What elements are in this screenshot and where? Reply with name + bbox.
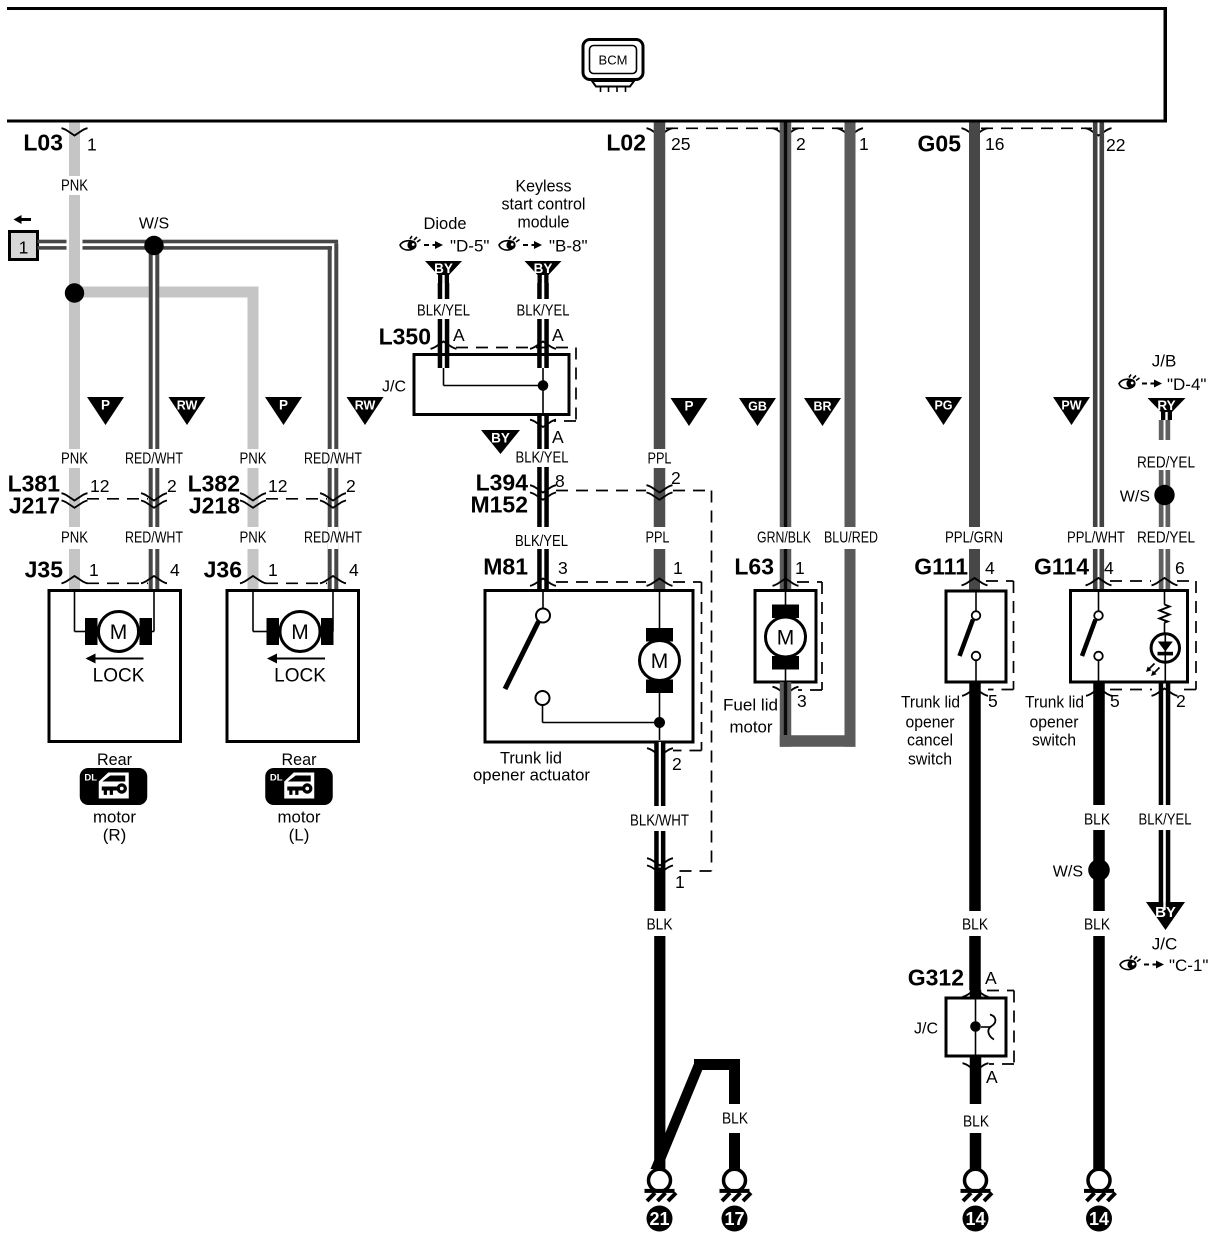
connector L381 chevrons on PNK [62,493,88,508]
connector L394/M152 dashed outline [556,491,712,872]
wire BLK/YEL keyless [537,283,549,368]
svg-text:GRN/BLK: GRN/BLK [757,530,811,547]
destination triangle RW (RED/WHT #1) [169,397,206,425]
label PNK [240,530,267,547]
svg-text:PG: PG [934,399,952,413]
svg-text:L350: L350 [379,324,431,350]
svg-text:P: P [101,398,110,413]
connector L02 labels [606,130,868,156]
svg-text:BLK: BLK [962,917,988,934]
connector L63 dashed outline [797,582,822,690]
svg-text:BCM: BCM [599,53,628,68]
svg-text:PNK: PNK [61,451,88,468]
svg-text:RW: RW [177,399,198,413]
label Trunk lid opener cancel switch [901,692,960,768]
label BLK/YEL [516,450,569,467]
connector G111 labels [914,554,995,580]
connector G312 labels [908,965,997,991]
svg-text:DL: DL [270,773,283,784]
connector G111 dashed outline [986,581,1014,690]
wire GRN/BLK from L02-2 [780,123,792,591]
wire BLK branch to ground 17 [651,1059,741,1170]
G312 internal line [975,999,977,1055]
svg-text:(R): (R) [103,825,127,844]
label Rear (R) [97,750,132,769]
svg-text:25: 25 [671,134,690,154]
label PPL/GRN [945,530,1003,547]
trunk lid opener cancel switch G111 box [946,591,1006,682]
connector J36 labels [204,557,359,583]
G114 LED [1146,634,1180,681]
label 2 below M81 [672,754,682,774]
destination triangle RW (RED/WHT #2) [347,397,384,425]
svg-text:5: 5 [988,691,998,711]
svg-text:BLK/YEL: BLK/YEL [516,450,569,467]
eye reference to B-8 [499,236,588,256]
svg-text:22: 22 [1106,135,1125,155]
svg-text:Trunk lid: Trunk lid [901,692,960,711]
svg-text:L02: L02 [606,130,646,156]
svg-text:opener: opener [1030,712,1079,731]
connector L63 labels [734,554,804,580]
svg-text:1: 1 [675,872,685,892]
svg-text:5: 5 [1110,691,1120,711]
svg-text:BLK/YEL: BLK/YEL [1139,812,1192,829]
svg-text:1: 1 [19,238,29,258]
svg-text:A: A [985,968,997,988]
svg-text:(L): (L) [289,825,310,844]
svg-text:J/C: J/C [382,379,406,396]
label BLU/RED [824,530,878,547]
svg-text:1: 1 [673,558,683,578]
wire PNK vertical #2 [248,287,259,591]
svg-text:BR: BR [813,400,831,414]
svg-text:W/S: W/S [1053,863,1083,880]
svg-text:cancel: cancel [907,730,953,749]
wire BLK below G111 [969,682,981,990]
connector chevron M81-2 [647,748,673,755]
wire RED/YEL [1159,420,1170,591]
svg-text:12: 12 [90,476,109,496]
connector chevron L63-3 [773,687,799,694]
wire RED/WHT horizontal from box 1 [38,240,339,250]
svg-text:BLK: BLK [722,1111,748,1128]
svg-text:start control: start control [502,195,586,214]
connector L382 chevrons on RED/WHT [320,493,346,508]
wire BLU/RED from L02-1 [845,123,856,747]
svg-text:14: 14 [965,1209,985,1229]
label BLK [1084,812,1110,829]
svg-text:W/S: W/S [1120,488,1150,505]
connector chevrons BLK/WHT to BLK [647,858,673,873]
connector L382/J218 dashed line [266,498,327,500]
label RED/YEL [1137,455,1195,472]
svg-text:G114: G114 [1034,554,1089,580]
svg-text:BY: BY [1155,904,1176,921]
wire PPL/GRN from G05-16 [969,123,980,592]
M81 switch [505,592,660,723]
G312 wire stub [970,990,982,998]
svg-text:PW: PW [1061,399,1081,413]
svg-text:LOCK: LOCK [274,666,326,687]
ground symbol 17 [720,1169,752,1201]
label A below L350 [552,427,564,447]
connector J35 labels [25,557,180,583]
svg-text:"C-1": "C-1" [1169,956,1208,975]
svg-text:"D-4": "D-4" [1167,375,1206,394]
wire BLK to ground 14 (G312) [970,1056,982,1170]
power source box 1 [10,215,38,260]
svg-text:RED/YEL: RED/YEL [1137,455,1195,472]
svg-text:"D-5": "D-5" [450,237,489,256]
label Trunk lid opener switch [1025,692,1084,749]
connector G05 labels [918,131,1126,157]
svg-text:J/B: J/B [1152,351,1177,370]
funnel BY (diode feed) [425,261,462,283]
svg-text:LOCK: LOCK [93,666,145,687]
label 5 below G111 [988,691,998,711]
svg-text:M: M [777,627,795,650]
connector G114 dashed outline [1110,581,1196,690]
svg-text:RED/WHT: RED/WHT [125,451,183,468]
svg-text:BLK/YEL: BLK/YEL [517,303,570,320]
connector chevron L03-1 [62,128,88,135]
svg-text:Rear: Rear [97,750,132,769]
connector M81 chevrons top [530,579,673,586]
connector L03 pin 1 label [23,130,96,156]
eye reference to D-5 [400,236,489,256]
ground number 14 (G312) [963,1206,989,1232]
svg-text:RY: RY [1157,398,1175,413]
connector G114 labels [1034,554,1185,580]
svg-text:PNK: PNK [240,530,267,547]
label A below G312 [986,1067,998,1087]
destination triangle P (PNK #2) [265,397,302,425]
junction dot on PNK [65,283,84,302]
G312 pigtail hook [981,1015,995,1040]
trunk lid opener switch G114 box [1071,591,1188,683]
svg-text:4: 4 [1104,558,1114,578]
svg-text:A: A [552,325,564,345]
label PPL [648,451,672,468]
ground symbol 21 [645,1169,677,1201]
svg-text:14: 14 [1089,1209,1109,1229]
svg-text:Keyless: Keyless [516,177,572,196]
svg-text:8: 8 [555,471,565,491]
svg-text:opener actuator: opener actuator [473,765,590,784]
M81 motor M [640,592,680,740]
G114 resistor [1160,592,1170,634]
splice W/S on RED/YEL [1120,485,1175,506]
label Diode [424,214,467,233]
connector L381/J217 labels [8,471,177,519]
svg-text:21: 21 [649,1209,669,1229]
L63 motor M [766,592,806,681]
svg-text:1: 1 [87,135,97,155]
svg-text:BY: BY [491,431,510,446]
svg-text:DL: DL [84,773,97,784]
label BLK [647,917,673,934]
splice W/S on BLK [1053,859,1110,881]
destination triangle P (PPL) [671,398,708,426]
connector chevron G312-A bottom [963,1063,989,1070]
funnel RY [1148,398,1186,420]
label RED/WHT [304,530,362,547]
svg-text:BLK/YEL: BLK/YEL [515,533,568,550]
funnel BY (to BY below L350) [481,430,520,454]
svg-text:M81: M81 [483,554,528,580]
label PPL/WHT [1067,530,1125,547]
BCM icon [583,40,643,93]
svg-text:1: 1 [859,134,869,154]
svg-text:BY: BY [534,261,553,276]
connector L381/J217 dashed line [87,498,148,500]
G111 switch [960,593,981,681]
connector J35 chevrons [62,576,168,583]
svg-text:2: 2 [1176,691,1186,711]
svg-text:3: 3 [797,691,807,711]
wire RED/WHT vertical #1 [149,245,160,591]
destination triangle BR [804,398,841,426]
wire BLK/YEL stub into J/C [438,355,549,369]
svg-text:1: 1 [795,558,805,578]
eye reference to D-4 [1119,375,1206,395]
wire BLK/YEL diode [438,283,450,368]
connector L02 dashed line [666,127,843,129]
svg-text:P: P [684,399,693,414]
svg-text:RED/WHT: RED/WHT [304,451,362,468]
svg-text:J/C: J/C [914,1021,938,1038]
G312 internal junction dot [970,1021,981,1032]
label PPL [646,530,670,547]
label PNK [61,451,88,468]
ground symbol 14 (G312) [961,1169,993,1201]
label RED/WHT [125,530,183,547]
svg-text:J217: J217 [9,493,60,519]
connector L350 dashed outline [456,348,576,422]
svg-text:6: 6 [1175,558,1185,578]
label 5 below G114 [1110,691,1120,711]
svg-text:motor: motor [730,717,773,736]
connector L382 chevrons on PNK [240,493,266,508]
destination triangle GB [739,398,776,426]
J/C internal junction dot [538,380,549,391]
svg-text:BLK/WHT: BLK/WHT [630,813,689,830]
connector G05 dashed line [981,127,1092,129]
svg-text:Rear: Rear [282,750,317,769]
wire PPL from L02-25 [654,123,666,591]
connector M81 labels [483,554,682,580]
ground number 21 [647,1206,673,1232]
svg-text:M: M [651,650,669,673]
M81 junction dot [654,717,665,728]
svg-text:PNK: PNK [240,451,267,468]
junction block J/C (L350) [382,355,569,415]
connector G114 chevrons top [1086,578,1178,585]
svg-text:module: module [518,213,570,232]
svg-text:RED/WHT: RED/WHT [125,530,183,547]
destination triangle P (PNK #1) [87,397,124,425]
wire BLK to ground 21 [654,876,665,1171]
wire BLK/YEL below G114 [1159,682,1171,902]
svg-text:Fuel lid: Fuel lid [723,695,778,714]
label Keyless start control module [502,177,586,232]
label J/C [1152,934,1178,953]
label PNK [61,178,88,195]
connector L63 chevron top [773,579,799,586]
wire GRN/BLK below L63 (U-turn to BLU/RED) [780,682,856,747]
svg-text:M: M [110,621,128,644]
rear door lock motor (L) box [227,591,359,742]
svg-text:12: 12 [268,476,287,496]
label BLK/YEL [515,533,568,550]
connector G111 chevron top [962,578,988,585]
svg-text:2: 2 [346,476,356,496]
label PNK [61,530,88,547]
label BLK/YEL [517,303,570,320]
svg-text:motor: motor [93,807,136,826]
connector chevron L350-A bottom [530,420,556,427]
ground symbol 14 (G114) [1084,1169,1116,1201]
door-lock DL icon (R) [80,768,148,805]
wire PNK branch horizontal [79,287,259,298]
wire PNK vertical from L03-1 [69,123,80,591]
svg-text:4: 4 [349,560,359,580]
label BLK/WHT [630,813,689,830]
label BLK [722,1111,748,1128]
splice W/S junction dot [139,216,169,256]
svg-text:BY: BY [434,261,453,276]
connector J36 chevrons [240,576,346,583]
svg-text:J/C: J/C [1152,934,1178,953]
svg-text:L63: L63 [734,554,774,580]
connector L381 chevrons on RED/WHT [141,493,167,508]
connector L394/M152 labels [470,468,680,517]
label Rear (L) [282,750,317,769]
label 2 below G114 [1176,691,1186,711]
label Fuel lid motor [723,695,778,736]
svg-text:switch: switch [908,749,952,768]
svg-text:PPL/WHT: PPL/WHT [1067,530,1125,547]
svg-text:A: A [552,427,564,447]
label 1 [675,872,685,892]
svg-text:17: 17 [724,1209,744,1229]
svg-text:RW: RW [355,399,376,413]
svg-text:BLK: BLK [963,1114,989,1131]
connector chevrons G114 bottom [1086,689,1178,696]
label Trunk lid opener actuator [473,748,590,784]
label BLK/YEL [1139,812,1192,829]
label motor (R) [93,807,136,844]
label J/B [1152,351,1177,370]
svg-text:PPL: PPL [648,451,672,468]
svg-text:PPL/GRN: PPL/GRN [945,530,1003,547]
G114 switch [1082,592,1103,681]
svg-text:Trunk lid: Trunk lid [1025,692,1084,711]
svg-text:J35: J35 [25,557,64,583]
connector L02 chevrons [647,128,864,135]
svg-text:A: A [986,1067,998,1087]
connector chevron G111-5 [962,689,988,696]
wire PPL/WHT from G05-22 [1093,123,1104,591]
svg-text:BLK: BLK [1084,917,1110,934]
svg-text:PNK: PNK [61,530,88,547]
junction block J/C G312 box [914,998,1006,1056]
eye reference to C-1 [1120,956,1208,976]
label PNK [240,451,267,468]
svg-text:G111: G111 [914,554,968,580]
connector M81 dashed outline [556,582,702,751]
svg-text:1: 1 [89,560,99,580]
svg-text:G05: G05 [918,131,962,157]
svg-text:J218: J218 [189,493,240,519]
label RED/WHT [304,451,362,468]
trunk lid opener actuator M81 box [485,591,693,743]
label BLK [963,1114,989,1131]
svg-text:BLK/YEL: BLK/YEL [417,303,470,320]
wire RED/WHT vertical #2 [328,243,339,590]
funnel BY (keyless feed) [525,261,562,283]
ground number 17 [722,1206,748,1232]
svg-text:BLU/RED: BLU/RED [824,530,878,547]
svg-text:3: 3 [558,558,568,578]
svg-text:M152: M152 [470,492,528,518]
svg-text:BLK: BLK [647,917,673,934]
connector J36 dashed line [266,582,327,584]
svg-text:4: 4 [985,558,995,578]
label RED/WHT [125,451,183,468]
connector chevron G312-A top [963,990,989,997]
svg-text:A: A [453,325,465,345]
svg-text:switch: switch [1032,730,1076,749]
svg-text:motor: motor [278,807,321,826]
door-lock DL icon (L) [265,768,333,805]
label BLK [962,917,988,934]
J/C internal wiring [444,368,544,415]
svg-text:4: 4 [170,560,180,580]
connector J35 dashed line [87,582,148,584]
destination triangle PW [1053,397,1090,425]
svg-text:16: 16 [985,134,1004,154]
BCM module outline (bus) [7,7,1167,123]
connector L350 chevrons [431,342,557,349]
label 3 below L63 [797,691,807,711]
connector G05 chevrons [962,128,1112,135]
svg-text:GB: GB [748,400,767,414]
svg-text:2: 2 [167,476,177,496]
label BLK/YEL [417,303,470,320]
wire BLK below G114 [1093,682,1105,1170]
svg-text:2: 2 [672,754,682,774]
svg-text:BLK: BLK [1084,812,1110,829]
ground number 14 (G114) [1086,1206,1112,1232]
connector L382/J218 labels [188,471,356,519]
svg-text:opener: opener [906,712,955,731]
fuel lid motor L63 box [755,591,816,683]
svg-text:"B-8": "B-8" [549,237,588,256]
funnel BY (to J/C C-1) [1146,902,1185,930]
svg-text:P: P [279,398,288,413]
svg-text:G312: G312 [908,965,964,991]
destination triangle PG [925,397,962,425]
svg-text:RED/YEL: RED/YEL [1137,530,1195,547]
svg-text:M: M [291,621,309,644]
svg-text:Diode: Diode [424,214,467,233]
svg-text:PNK: PNK [61,178,88,195]
connector G312 dashed outline [987,991,1014,1065]
connector L350 labels [379,324,564,350]
label GRN/BLK [757,530,811,547]
